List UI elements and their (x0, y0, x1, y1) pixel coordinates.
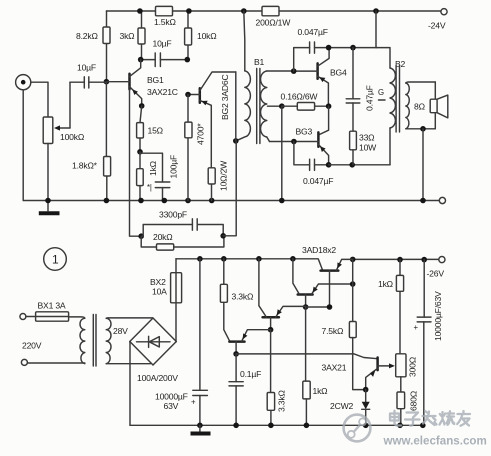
svg-text:220V: 220V (22, 341, 42, 351)
node 10Ω/2W bottom rail (209, 198, 215, 204)
resistor 680Ω (397, 390, 419, 425)
resistor 1.5kΩ (154, 6, 176, 27)
resistor 1.8kΩ (72, 82, 111, 201)
svg-text:+: + (191, 398, 196, 407)
wire speaker bottom to rail (422, 129, 424, 201)
svg-text:200Ω/1W: 200Ω/1W (256, 18, 292, 28)
svg-text:33Ω: 33Ω (359, 133, 375, 143)
svg-text:10000µF: 10000µF (155, 392, 188, 402)
node 100µF bottom rail (162, 198, 168, 204)
svg-text:BX1 3A: BX1 3A (38, 301, 66, 311)
svg-text:2CW2: 2CW2 (330, 401, 353, 411)
potentiometer 300Ω (396, 354, 418, 392)
svg-text:3kΩ: 3kΩ (120, 31, 136, 41)
svg-text:1.8kΩ*: 1.8kΩ* (72, 161, 98, 171)
speaker 8Ω (414, 82, 448, 129)
svg-text:10kΩ: 10kΩ (197, 31, 217, 41)
node 10µF right / 10k bottom (185, 57, 191, 63)
fuse BX1 3A (36, 301, 69, 322)
node 4700 bottom rail (185, 198, 191, 204)
svg-text:3AX21C: 3AX21C (147, 87, 178, 97)
capacitor 4700pF base (185, 95, 206, 201)
potentiometer 100kΩ (43, 82, 85, 200)
transformer power core (93, 315, 96, 367)
transistor 3AX21 regulator (322, 358, 395, 390)
wire BG3 collector riser (318, 106, 328, 135)
svg-text:0.1µF: 0.1µF (240, 369, 261, 379)
node -26V 1k top (397, 257, 403, 263)
svg-text:BX2: BX2 (150, 277, 166, 287)
wire bridge negative to bottom rail (129, 342, 131, 426)
fuse BX2 10A (150, 259, 182, 342)
capacitor 10µF input (70, 63, 106, 89)
node BG4 base (291, 68, 297, 74)
node BG3 base tap (291, 139, 297, 145)
zener diode 2CW2 (330, 390, 370, 426)
svg-text:3AX21: 3AX21 (322, 363, 347, 373)
wire secondary bottom to bridge (106, 363, 150, 365)
transistor BG2 3AD6C (188, 72, 236, 168)
svg-text:BG2 3AD6C: BG2 3AD6C (220, 75, 230, 121)
transformer power primary (80, 318, 85, 363)
svg-text:8Ω: 8Ω (414, 102, 426, 112)
ground amp input (39, 201, 60, 214)
node rail B2 primary top (373, 8, 379, 14)
transformer B1 primary winding (236, 11, 265, 141)
capacitor 0.047µF bottom (294, 142, 333, 187)
node BG2 base (185, 92, 191, 98)
resistor 3.3kΩ driver (220, 259, 254, 342)
terminal amp common right (439, 197, 445, 203)
terminal -24V (428, 9, 447, 31)
node Qa base (233, 351, 239, 357)
wire center tap to common rail (281, 106, 283, 200)
resistor 0.16Ω/6W (281, 92, 329, 111)
wire PSU -26V output rail (353, 258, 439, 260)
ground PSU (191, 425, 211, 433)
node -26V cap top (421, 257, 427, 263)
watermark text dianzi fashaoyou (390, 411, 470, 426)
node BG4 collector (326, 45, 332, 51)
svg-text:300Ω: 300Ω (408, 356, 418, 377)
resistor 1kΩ middle (303, 307, 328, 425)
svg-text:B1: B1 (254, 57, 265, 67)
node 3.3k lower rail (268, 423, 274, 429)
wire feedback to B1 bottom (223, 141, 236, 236)
node Qc base / Qa emitter (268, 327, 274, 333)
transistor BG1 3AX21C (106, 60, 177, 106)
transformer B2 secondary winding (406, 82, 436, 129)
bridge rectifier 100A/200V (130, 318, 178, 383)
svg-text:0.047µF: 0.047µF (298, 27, 328, 37)
svg-text:8.2kΩ: 8.2kΩ (76, 31, 98, 41)
terminal 220V top (20, 314, 36, 320)
label circled 1 (44, 248, 67, 271)
transistor Qa error amp (229, 330, 270, 354)
node speaker rail (420, 198, 426, 204)
svg-text:10µF: 10µF (77, 63, 96, 73)
node 1.8k bottom on rail (104, 198, 110, 204)
svg-text:-26V: -26V (427, 269, 445, 279)
node rail QT2 collector (290, 256, 296, 262)
node base BG1 / 8.2k-1.8k divider (104, 79, 110, 85)
transistor QT1 3AD18 upper (302, 245, 353, 307)
transistor BG4 (294, 48, 347, 106)
node BG3 emitter (326, 162, 332, 168)
svg-text:15Ω: 15Ω (148, 126, 164, 136)
terminal -26V (427, 257, 446, 279)
resistor 3.3kΩ lower (267, 330, 286, 426)
node rail 10000µF top (197, 256, 203, 262)
resistor 1kΩ emitter (137, 152, 158, 201)
wire base tie QT1-QT2 (306, 306, 330, 308)
transformer power secondary 28V (106, 318, 128, 363)
svg-text:0.047µF: 0.047µF (303, 176, 333, 186)
node rail 10k top (186, 8, 192, 14)
transistor QT2 3AD18 lower (293, 259, 353, 307)
wire PSU raw rail (176, 259, 323, 271)
transformer B2 primary winding (376, 11, 406, 165)
node QT2 base tie (303, 304, 309, 310)
svg-text:G: G (378, 88, 384, 97)
transformer B1 core (257, 69, 260, 144)
node QT1 base tie (327, 304, 333, 310)
resistor 3kΩ (120, 11, 146, 60)
svg-text:-24V: -24V (428, 21, 446, 31)
resistor 20kΩ feedback (141, 232, 224, 250)
svg-text:7.5kΩ: 7.5kΩ (322, 326, 344, 336)
resistor 1kΩ right (378, 260, 404, 354)
svg-text:BG1: BG1 (147, 75, 164, 85)
svg-text:100µF: 100µF (169, 155, 179, 179)
svg-text:3.3kΩ: 3.3kΩ (232, 292, 254, 302)
capacitor 10µF interstage (141, 39, 188, 67)
resistor 10Ω/2W (208, 160, 228, 201)
node main cap bottom (197, 423, 203, 429)
node -26V emitter tap (350, 281, 356, 287)
node rail 3.3k top (221, 256, 227, 262)
svg-text:+: + (414, 323, 419, 332)
transistor Qc driver (259, 259, 306, 330)
svg-text:10Ω/2W: 10Ω/2W (219, 160, 229, 191)
svg-text:680Ω: 680Ω (409, 390, 419, 411)
transformer B1 secondary winding (261, 71, 294, 142)
node center tap ground on rail (279, 198, 285, 204)
watermark logo circle (344, 415, 371, 442)
svg-text:0.47µF: 0.47µF (365, 85, 375, 111)
svg-text:3.3kΩ: 3.3kΩ (277, 390, 287, 412)
terminal 220V bottom (21, 341, 84, 366)
svg-text:1kΩ: 1kΩ (313, 386, 329, 396)
node 1k middle rail (304, 423, 310, 429)
node BG4 emitter / BG3 collector (326, 103, 332, 109)
svg-text:28V: 28V (113, 326, 128, 336)
svg-text:1.5kΩ: 1.5kΩ (154, 17, 176, 27)
svg-text:BG3: BG3 (296, 127, 313, 137)
capacitor 0.047µF top (294, 27, 377, 71)
resistor R 8.2kΩ (76, 11, 110, 82)
node 680 bottom rail (397, 423, 403, 429)
svg-text:10W: 10W (359, 143, 377, 153)
node speaker bottom (420, 126, 426, 132)
node 1k bottom rail (138, 198, 144, 204)
svg-text:3AD18x2: 3AD18x2 (302, 245, 336, 255)
svg-text:63V: 63V (164, 401, 179, 411)
svg-text:0.16Ω/6W: 0.16Ω/6W (281, 92, 319, 102)
capacitor 10000µF/63V output (414, 260, 443, 426)
svg-text:10000µF/63V: 10000µF/63V (433, 291, 443, 341)
wire -26V down to 7.5k (352, 259, 354, 321)
node rail Qc collector (256, 256, 262, 262)
resistor 200Ω/1W (256, 6, 292, 27)
node 0.47µF top (350, 45, 356, 51)
node 33Ω bottom (349, 162, 355, 168)
svg-text:1kΩ: 1kΩ (148, 160, 158, 176)
capacitor 10000µF 63V main filter (155, 259, 207, 426)
wire Qa base to 3AX21 (236, 354, 377, 359)
wire amp bottom common rail (23, 200, 439, 202)
svg-text:BG4: BG4 (330, 68, 347, 78)
transformer B2 core (396, 66, 399, 133)
capacitor 0.47µF (346, 48, 374, 132)
node BG1 collector / 3k bottom (138, 57, 144, 63)
svg-text:1: 1 (52, 253, 59, 267)
wire feedback from BG1 base (130, 89, 142, 236)
svg-text:*|: *| (147, 183, 152, 192)
node output cap bottom rail (420, 423, 426, 429)
svg-text:100kΩ: 100kΩ (60, 132, 85, 142)
wire output node to B2 (329, 164, 390, 166)
resistor 7.5kΩ (322, 322, 366, 390)
resistor 15Ω (137, 106, 164, 152)
wire top supply rail (-24V) (107, 10, 442, 12)
svg-text:www.elecfans.com: www.elecfans.com (383, 435, 487, 448)
node B1 center tap (279, 103, 285, 109)
svg-text:4700*: 4700* (196, 123, 206, 145)
node -26V emitter junction (350, 257, 356, 263)
svg-text:20kΩ: 20kΩ (153, 232, 173, 242)
capacitor 3300pF feedback (141, 210, 223, 237)
node zener bottom rail (363, 423, 369, 429)
capacitor 100µF bypass (140, 153, 179, 200)
node 3AX21 emitter / zener top (363, 387, 369, 393)
wire PSU bottom rail (130, 424, 424, 426)
capacitor 0.1µF (229, 354, 261, 425)
svg-text:3300pF: 3300pF (159, 210, 187, 220)
node G center tap mark (378, 88, 385, 100)
node rail B1 primary top (241, 8, 247, 14)
resistor 10kΩ (185, 11, 218, 60)
node rail 3k top (137, 8, 143, 14)
wire secondary top to bridge (106, 317, 153, 319)
node BG1 emitter (139, 103, 145, 109)
transistor BG3 (270, 127, 329, 165)
svg-text:100A/200V: 100A/200V (137, 373, 178, 383)
node feedback left (138, 233, 144, 239)
node 15Ω bottom (137, 149, 143, 155)
input jack connector (16, 75, 48, 201)
resistor 33Ω/10W (350, 131, 378, 165)
wire BG2 collector to B1 bottom (235, 72, 237, 141)
node pot bottom on rail (45, 198, 51, 204)
svg-text:1kΩ: 1kΩ (378, 279, 394, 289)
node B1 primary bottom / BG2 collector (233, 138, 239, 144)
svg-text:10µF: 10µF (153, 39, 172, 49)
node 0.1µF bottom rail (233, 423, 239, 429)
wire fuse to transformer (69, 317, 85, 318)
svg-text:10A: 10A (152, 287, 167, 297)
node feedback right (220, 233, 226, 239)
